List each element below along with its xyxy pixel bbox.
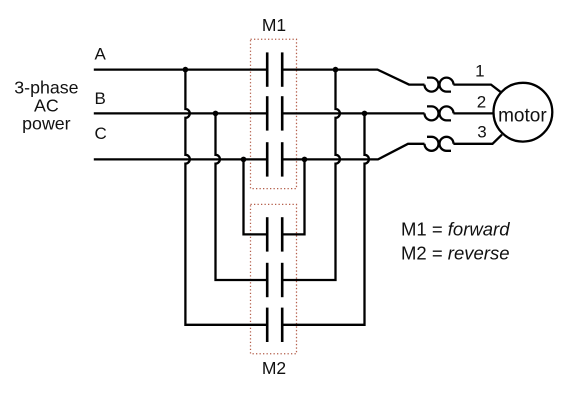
svg-text:motor: motor: [498, 105, 547, 126]
svg-text:2: 2: [477, 93, 486, 112]
svg-text:M2: M2: [262, 358, 286, 378]
svg-text:C: C: [95, 124, 107, 143]
svg-text:M2 = reverse: M2 = reverse: [401, 243, 510, 264]
svg-text:M1: M1: [262, 15, 286, 35]
svg-text:power: power: [22, 114, 71, 134]
svg-text:3-phase: 3-phase: [14, 78, 78, 98]
svg-text:AC: AC: [34, 96, 59, 116]
svg-text:3: 3: [477, 122, 486, 141]
svg-text:M1 = forward: M1 = forward: [401, 219, 510, 240]
svg-text:B: B: [95, 89, 106, 108]
svg-text:A: A: [95, 45, 107, 64]
svg-text:1: 1: [475, 62, 484, 81]
